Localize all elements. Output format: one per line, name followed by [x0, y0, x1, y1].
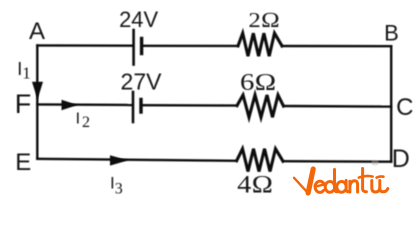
logo letter a [337, 181, 346, 192]
logo letter n [350, 181, 358, 192]
battery 24V long plate [132, 30, 135, 65]
resistor R1 2-ohm zigzag [238, 33, 282, 56]
scan smudge near logo [372, 160, 379, 166]
svg-text:2Ω: 2Ω [248, 8, 280, 32]
svg-text:I: I [76, 111, 80, 128]
arrow I2 right on middle wire [62, 100, 78, 110]
svg-text:3: 3 [115, 180, 123, 197]
wire left vertical A-F-E [36, 45, 38, 158]
wire 4-ohm resistor to D [283, 160, 391, 163]
arrow I3 right on bottom wire [110, 155, 128, 165]
wire right vertical B-C-D [390, 46, 392, 162]
svg-text:2: 2 [82, 114, 90, 131]
logo letter e [315, 181, 324, 192]
resistor R2 6-ohm zigzag [237, 95, 284, 117]
svg-text:F: F [15, 89, 32, 119]
svg-text:C: C [396, 94, 413, 121]
logo letter u [372, 181, 388, 193]
Vedantu logo [294, 169, 388, 193]
battery 27V short plate [139, 100, 142, 113]
wire 24V battery to 2-ohm resistor [142, 45, 238, 48]
battery 24V short plate [140, 39, 143, 54]
wire 2-ohm resistor to B [282, 45, 391, 48]
svg-text:1: 1 [22, 63, 31, 82]
logo t crossbar [359, 176, 373, 178]
svg-text:B: B [384, 21, 399, 46]
logo letter t [363, 169, 367, 192]
wire top-left A to 24V battery [37, 44, 132, 47]
resistor R3 4-ohm zigzag [237, 149, 283, 172]
svg-text:D: D [392, 145, 410, 173]
logo V checkmark [294, 178, 308, 193]
wire middle F to 27V battery [37, 103, 132, 106]
wire 27V battery to 6-ohm resistor [142, 104, 237, 107]
svg-text:24V: 24V [119, 7, 158, 32]
svg-text:4Ω: 4Ω [237, 172, 273, 199]
arrow I1 down on left wire [32, 82, 43, 100]
logo letter d [325, 181, 334, 192]
svg-text:27V: 27V [121, 69, 163, 95]
battery 27V long plate [132, 92, 135, 122]
svg-text:6Ω: 6Ω [240, 70, 277, 96]
logo u swash [377, 176, 384, 177]
svg-text:A: A [29, 18, 45, 45]
wire 6-ohm resistor to C [284, 105, 392, 108]
wire bottom E to 4-ohm resistor [37, 159, 236, 161]
svg-text:E: E [15, 149, 31, 176]
